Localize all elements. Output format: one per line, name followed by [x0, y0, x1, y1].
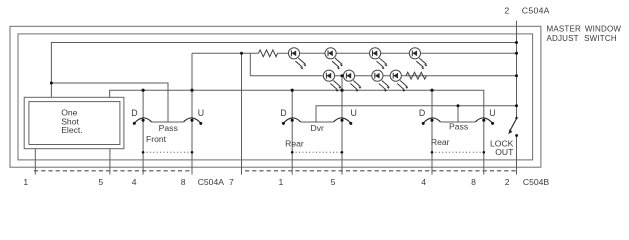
- svg-text:Pass: Pass: [159, 123, 178, 133]
- svg-text:5: 5: [98, 177, 103, 187]
- svg-text:Dvr: Dvr: [311, 123, 325, 133]
- svg-text:7: 7: [229, 177, 234, 187]
- svg-text:1: 1: [279, 177, 284, 187]
- svg-text:Rear: Rear: [285, 138, 304, 148]
- svg-text:2: 2: [504, 6, 509, 16]
- svg-text:Front: Front: [146, 134, 167, 144]
- svg-text:C504A: C504A: [522, 6, 550, 16]
- svg-text:Pass: Pass: [449, 121, 468, 131]
- svg-text:U: U: [198, 108, 204, 118]
- svg-text:4: 4: [421, 177, 426, 187]
- svg-text:C504B: C504B: [523, 177, 550, 187]
- svg-text:8: 8: [471, 177, 476, 187]
- svg-text:C504A: C504A: [198, 177, 225, 187]
- svg-text:D: D: [280, 108, 286, 118]
- svg-text:MASTER WINDOW: MASTER WINDOW: [547, 25, 622, 34]
- svg-text:OUT: OUT: [495, 147, 514, 157]
- svg-text:8: 8: [181, 177, 186, 187]
- svg-text:5: 5: [331, 177, 336, 187]
- svg-text:U: U: [351, 108, 357, 118]
- svg-text:Rear: Rear: [431, 137, 450, 147]
- svg-text:2: 2: [505, 177, 510, 187]
- svg-text:1: 1: [23, 177, 28, 187]
- svg-text:Elect.: Elect.: [61, 125, 82, 135]
- svg-text:U: U: [489, 108, 495, 118]
- svg-text:D: D: [419, 108, 425, 118]
- svg-text:D: D: [131, 108, 137, 118]
- svg-text:ADJUST SWITCH: ADJUST SWITCH: [547, 34, 617, 43]
- svg-text:4: 4: [132, 177, 137, 187]
